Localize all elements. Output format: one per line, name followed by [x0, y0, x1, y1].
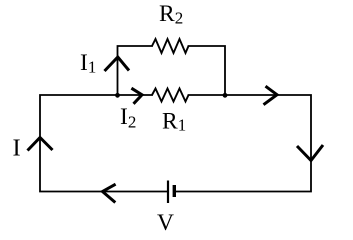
wire: upper branch right segment and vertical down to node B	[189, 46, 226, 95]
current arrow I2 (lower branch, right)	[131, 88, 142, 104]
current arrow right side (down)	[297, 145, 323, 161]
battery V long plate	[167, 181, 169, 204]
battery V short plate	[173, 185, 176, 197]
svg-text:I1: I1	[80, 50, 96, 76]
svg-text:I2: I2	[120, 104, 136, 132]
current arrow I1 (branch vertical, up)	[105, 57, 130, 71]
current arrow I (left side, up)	[28, 138, 53, 151]
node B junction dot	[223, 93, 228, 98]
svg-text:R1: R1	[162, 109, 186, 135]
node A junction dot	[115, 93, 120, 98]
wire: left side and bottom-left run (from node A along top-left, down left side, along bottom to battery long plate)	[40, 95, 168, 192]
current arrow top-right (right)	[264, 86, 278, 105]
svg-text:V: V	[157, 210, 174, 236]
current arrow bottom (left)	[103, 184, 116, 202]
resistor R1	[152, 89, 189, 102]
wire: top-right run and right side (from R1 right end to top-right corner, down right side, along bottom to battery short plate)	[175, 95, 311, 192]
svg-text:R2: R2	[159, 1, 183, 28]
wire: branch vertical left (node A up to upper branch)	[118, 46, 153, 95]
svg-text:I: I	[13, 135, 21, 162]
resistor R2	[152, 39, 189, 53]
